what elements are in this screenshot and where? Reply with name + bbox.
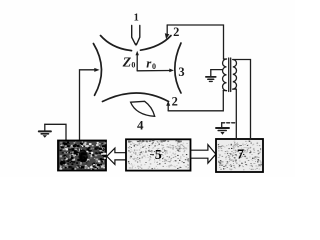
svg-text:4: 4: [137, 117, 144, 132]
arrow to bottom endcap: [166, 101, 170, 111]
hollow arrow box5 to box6: [107, 148, 127, 164]
transformer T1 primary top connector: [224, 58, 227, 60]
ground G3 with dashed stub: [216, 123, 236, 135]
label Z0: [122, 55, 136, 70]
svg-text:3: 3: [178, 65, 184, 79]
arrow to top endcap: [165, 25, 170, 39]
box 7 RF generator stippled: [216, 139, 263, 172]
bottom endcap electrode: [103, 93, 169, 102]
wire bottom endcap to transformer primary: [168, 91, 223, 111]
exit slit 4 in bottom endcap: [131, 101, 155, 116]
svg-text:6: 6: [79, 151, 87, 167]
box 5 stippled: [126, 139, 191, 170]
svg-text:1: 1: [134, 12, 139, 23]
wire left ring electrode to box 6: [80, 68, 100, 141]
svg-text:0: 0: [152, 62, 156, 71]
ground G2 at transformer: [206, 70, 223, 82]
z0 axis arrow: [136, 51, 139, 71]
transformer T1 core: [229, 58, 231, 92]
ground G1: [39, 124, 51, 138]
ring electrode right half: [175, 43, 181, 93]
svg-text:7: 7: [237, 147, 244, 162]
r0 axis arrow: [137, 69, 174, 73]
box 6 detector dark textured: [58, 141, 106, 171]
hollow arrow box5 to box7: [191, 145, 216, 164]
transformer T1 primary bottom connector: [223, 90, 226, 92]
svg-text:Z: Z: [122, 55, 132, 70]
svg-text:5: 5: [155, 148, 162, 163]
top endcap electrode right arm: [141, 36, 172, 51]
transformer T1 secondary coil: [233, 60, 237, 90]
wire transformer secondary top to box 7: [233, 60, 251, 140]
svg-text:0: 0: [131, 61, 135, 70]
wire top endcap to transformer: [167, 25, 223, 59]
top endcap electrode left arm: [101, 36, 132, 51]
wire ground G1 to box 6: [45, 124, 66, 140]
ion entrance channel arrow: [132, 26, 140, 47]
wire transformer secondary bottom to box 7: [233, 89, 237, 139]
transformer T1 primary coil: [223, 59, 227, 91]
label r0: [146, 55, 156, 71]
ring electrode left half: [93, 44, 101, 96]
svg-text:2: 2: [172, 95, 178, 109]
svg-text:2: 2: [173, 25, 179, 39]
